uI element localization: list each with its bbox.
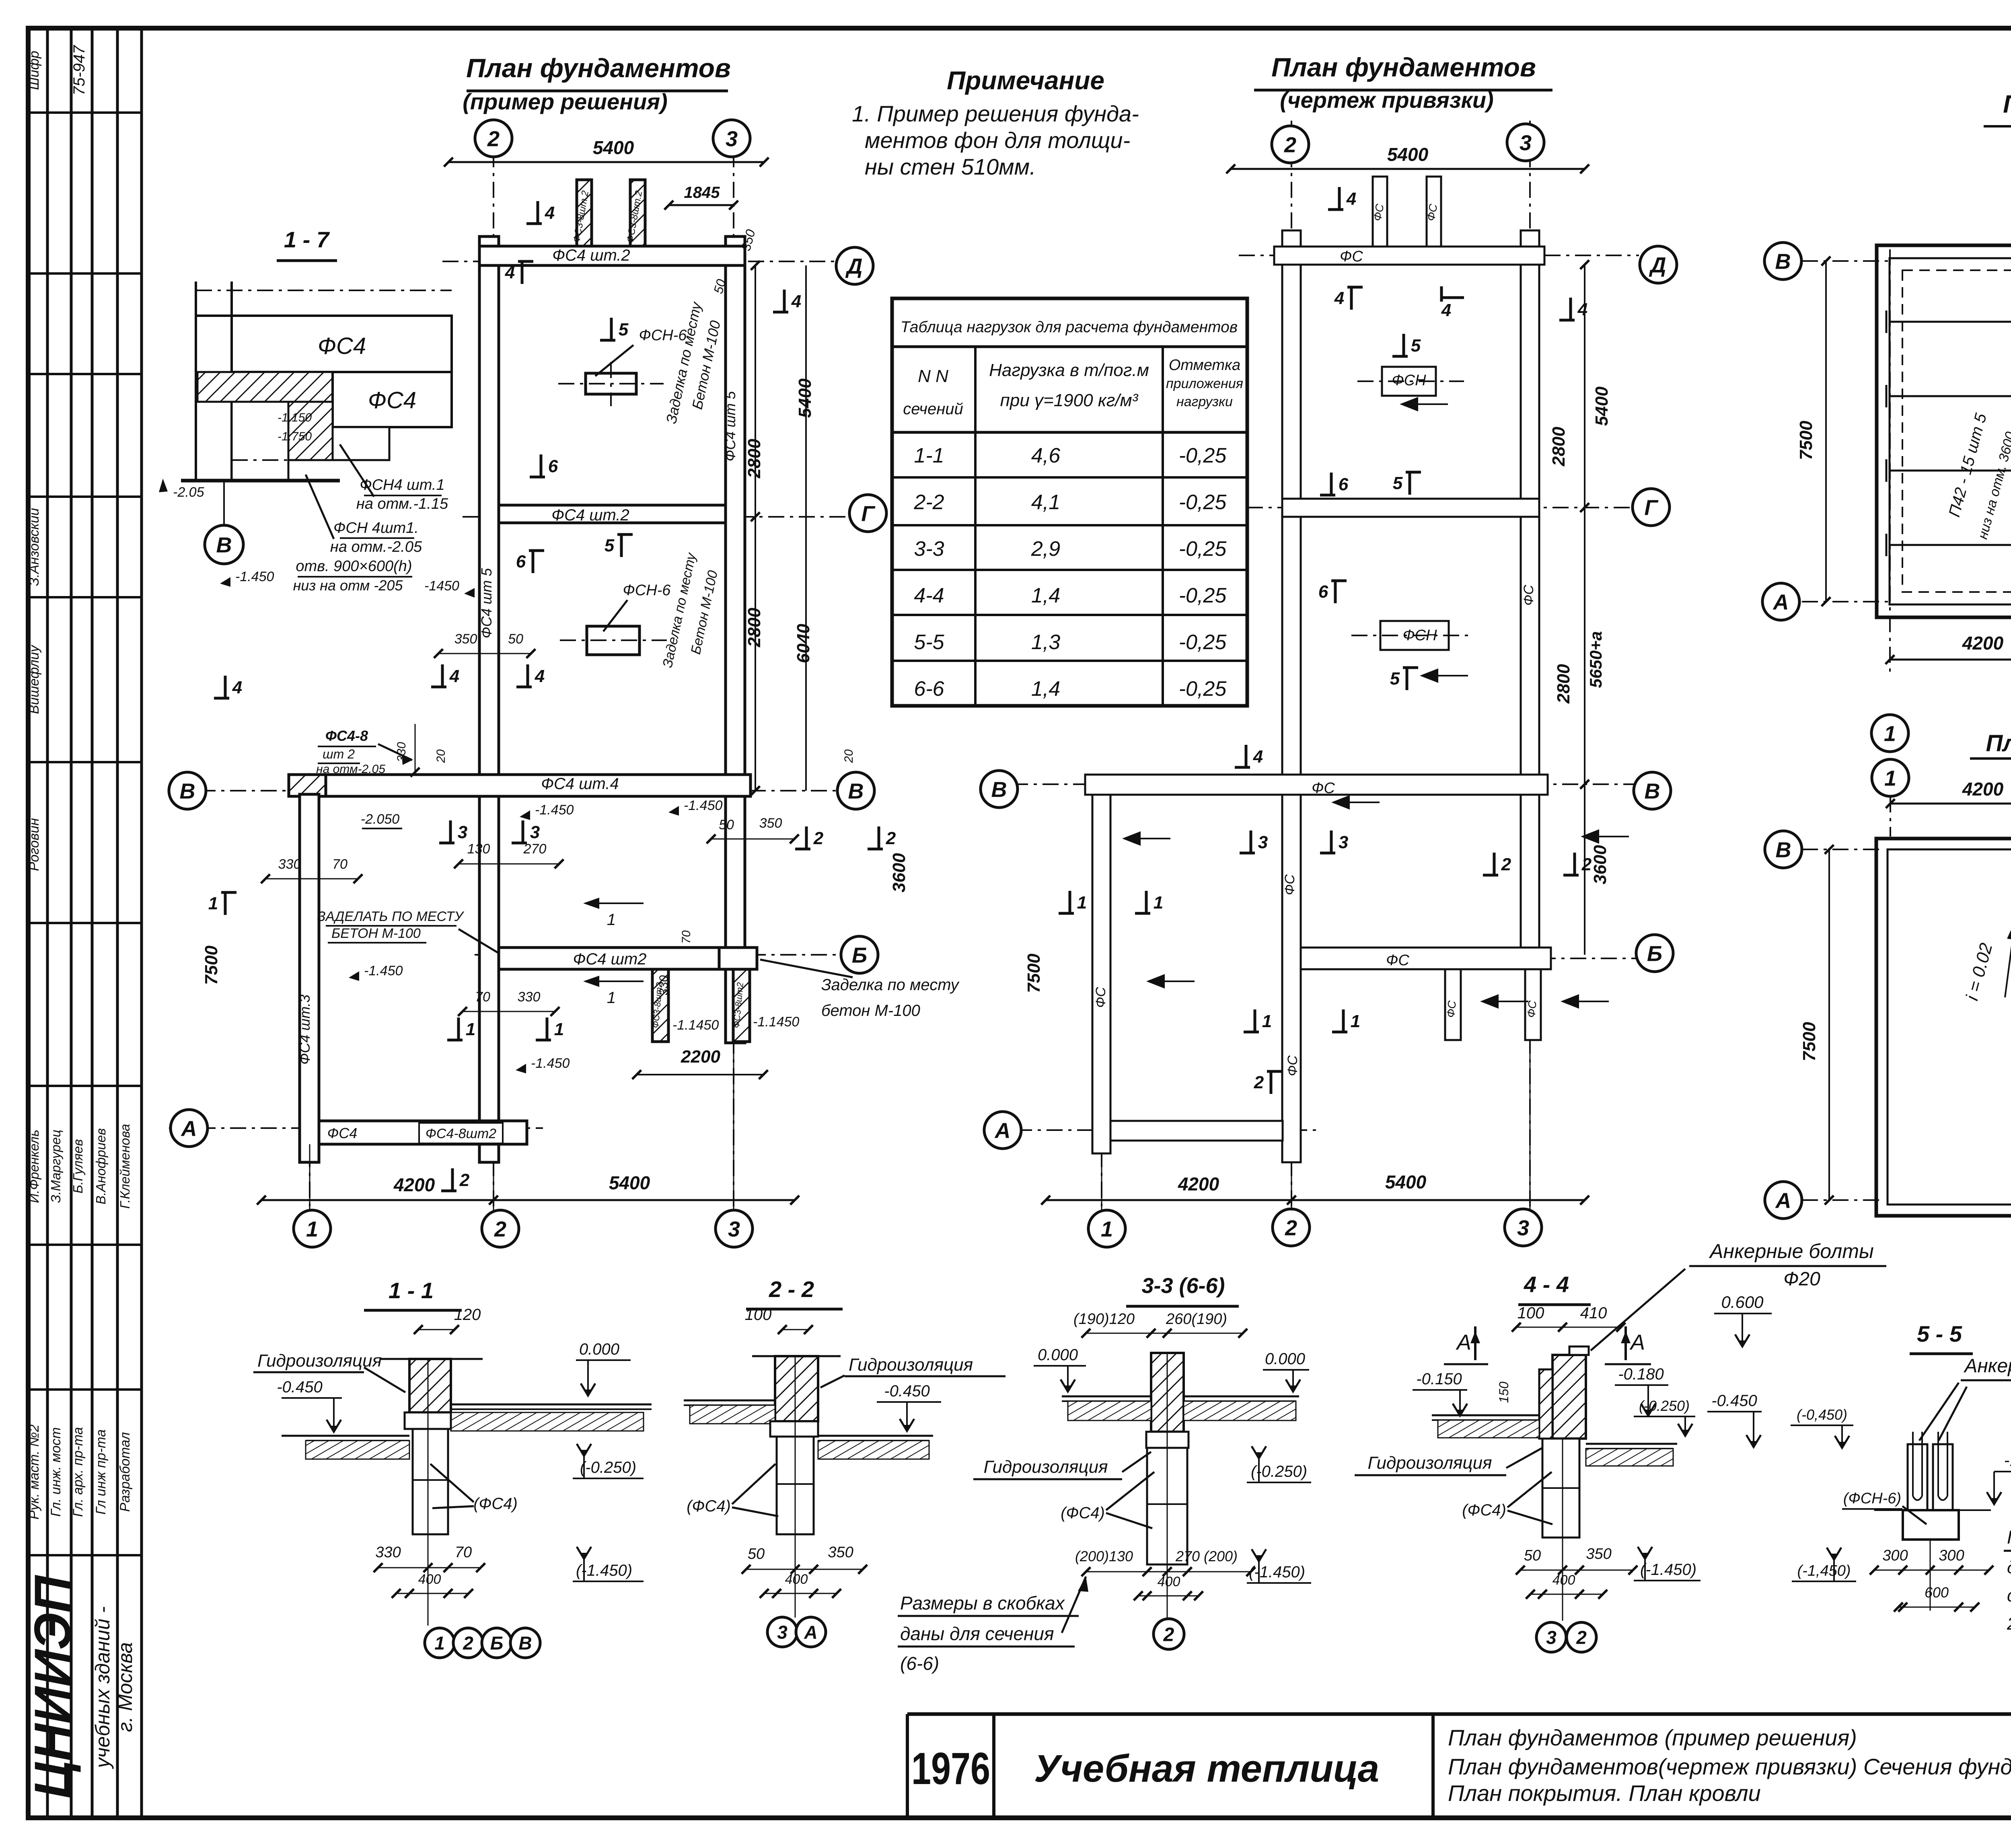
svg-text:-0.180: -0.180 <box>1618 1365 1663 1383</box>
svg-text:-1.450: -1.450 <box>684 798 722 813</box>
svg-text:4: 4 <box>535 666 545 686</box>
svg-text:2: 2 <box>459 1170 470 1190</box>
svg-text:ФСН-6: ФСН-6 <box>623 582 671 599</box>
svg-text:6: 6 <box>1339 475 1349 494</box>
svg-text:на отм-2.05: на отм-2.05 <box>316 763 385 776</box>
svg-text:0.600: 0.600 <box>1721 1293 1764 1311</box>
svg-text:(-1.450): (-1.450) <box>1640 1561 1696 1579</box>
title block <box>907 1712 2011 1716</box>
plan1 dims <box>448 161 764 163</box>
svg-text:Б: Б <box>852 943 867 967</box>
svg-text:Б: Б <box>490 1633 504 1654</box>
svg-text:2: 2 <box>1284 133 1296 157</box>
svg-text:1: 1 <box>1077 893 1087 913</box>
svg-text:2: 2 <box>1581 855 1592 874</box>
svg-text:Г: Г <box>861 502 876 526</box>
svg-text:на отм.-2.05: на отм.-2.05 <box>330 539 422 555</box>
svg-text:ФС: ФС <box>1525 1000 1539 1018</box>
svg-text:330: 330 <box>518 989 541 1005</box>
svg-text:6: 6 <box>548 456 558 476</box>
svg-text:А: А <box>181 1116 197 1141</box>
svg-text:А: А <box>994 1118 1011 1143</box>
svg-text:7500: 7500 <box>1796 421 1816 460</box>
svg-text:Гнездо в кладке: Гнездо в кладке <box>2007 1527 2011 1548</box>
svg-text:Нагрузка в т/пог.м: Нагрузка в т/пог.м <box>989 360 1149 380</box>
svg-text:350: 350 <box>759 816 782 831</box>
svg-text:-2.05: -2.05 <box>173 485 204 500</box>
svg-text:2-2: 2-2 <box>913 491 944 514</box>
svg-text:БЕТОН М-100: БЕТОН М-100 <box>331 926 421 941</box>
svg-text:4200: 4200 <box>1962 633 2004 654</box>
svg-text:ны стен 510мм.: ны стен 510мм. <box>865 154 1036 179</box>
svg-text:-1450: -1450 <box>424 578 459 594</box>
svg-text:Таблица нагрузок для расчета ф: Таблица нагрузок для расчета фундаментов <box>901 319 1238 336</box>
svg-text:(-0.250): (-0.250) <box>1639 1398 1690 1414</box>
svg-text:Б: Б <box>1647 941 1662 966</box>
svg-text:2200: 2200 <box>681 1047 720 1067</box>
svg-text:1,4: 1,4 <box>1031 584 1060 607</box>
pokrytie axes <box>1802 260 1890 262</box>
svg-text:ФС: ФС <box>1282 874 1297 895</box>
svg-text:Г.Клейменова: Г.Клейменова <box>117 1124 132 1209</box>
svg-text:70: 70 <box>680 930 693 944</box>
svg-text:6: 6 <box>1318 582 1328 602</box>
svg-text:-0,25: -0,25 <box>1179 584 1227 607</box>
svg-text:6040: 6040 <box>794 624 813 663</box>
svg-text:2800: 2800 <box>744 439 764 479</box>
svg-text:Анкерные болты: Анкерные болты <box>1963 1355 2011 1377</box>
svg-text:6-6: 6-6 <box>914 677 944 701</box>
svg-text:2 - 2: 2 - 2 <box>769 1277 814 1302</box>
plan1 walls <box>479 236 499 1162</box>
svg-text:3600: 3600 <box>889 853 909 892</box>
svg-text:1: 1 <box>1884 766 1896 790</box>
svg-text:7500: 7500 <box>202 946 221 985</box>
svg-text:2: 2 <box>1576 1627 1587 1648</box>
svg-text:4: 4 <box>1253 747 1263 767</box>
svg-text:Гл. арх. пр-та: Гл. арх. пр-та <box>70 1427 86 1517</box>
plan2 flags <box>1338 187 1341 210</box>
svg-text:5650+а: 5650+а <box>1586 631 1605 688</box>
svg-text:4200: 4200 <box>1178 1174 1219 1194</box>
svg-text:бетон М-100: бетон М-100 <box>821 1002 920 1020</box>
svg-text:ФС4 шт 5: ФС4 шт 5 <box>722 391 738 462</box>
svg-text:1: 1 <box>607 911 616 929</box>
svg-text:1-1: 1-1 <box>914 444 944 467</box>
svg-text:(-0,450): (-0,450) <box>1797 1406 1847 1423</box>
svg-text:ФС: ФС <box>1093 987 1108 1008</box>
svg-text:4: 4 <box>449 666 459 686</box>
svg-text:Гидроизоляция: Гидроизоляция <box>983 1457 1108 1477</box>
svg-text:В: В <box>1645 779 1660 803</box>
svg-text:ФСН 4шт1.: ФСН 4шт1. <box>333 520 419 537</box>
svg-text:ФС4 шт.4: ФС4 шт.4 <box>541 775 619 793</box>
svg-text:ФСН: ФСН <box>1402 627 1437 644</box>
svg-text:(ФС4): (ФС4) <box>1061 1504 1105 1522</box>
svg-text:6: 6 <box>516 552 526 571</box>
svg-text:(чертеж привязки): (чертеж привязки) <box>1280 87 1493 113</box>
svg-text:270 (200): 270 (200) <box>1175 1548 1238 1564</box>
svg-text:130: 130 <box>467 841 490 857</box>
svg-text:0.000: 0.000 <box>1038 1346 1078 1364</box>
svg-text:З.Маргурец: З.Маргурец <box>48 1130 63 1203</box>
plan1 section flags <box>537 201 539 224</box>
svg-text:ФСН: ФСН <box>1392 372 1426 389</box>
svg-text:-1.450: -1.450 <box>364 963 403 978</box>
svg-text:1: 1 <box>434 1633 445 1654</box>
svg-text:-1.450: -1.450 <box>235 569 274 584</box>
svg-text:(ФСН-6): (ФСН-6) <box>1843 1490 1901 1507</box>
svg-text:В: В <box>180 779 195 803</box>
svg-text:План покрытия. План кровли: План покрытия. План кровли <box>1448 1780 1761 1806</box>
svg-text:0.000: 0.000 <box>1265 1350 1305 1368</box>
svg-text:ФС4: ФС4 <box>318 333 366 359</box>
svg-text:ФС4: ФС4 <box>327 1125 358 1141</box>
svg-text:ФС4-8шт2: ФС4-8шт2 <box>426 1126 496 1141</box>
svg-text:ФС4: ФС4 <box>368 387 416 413</box>
svg-text:4,1: 4,1 <box>1031 491 1060 514</box>
svg-text:2,9: 2,9 <box>1031 537 1060 561</box>
svg-text:-1.050: -1.050 <box>2004 1451 2011 1470</box>
svg-text:4: 4 <box>791 292 801 311</box>
svg-text:ЗАДЕЛАТЬ ПО МЕСТУ: ЗАДЕЛАТЬ ПО МЕСТУ <box>317 909 465 924</box>
svg-text:-0.150: -0.150 <box>1416 1370 1462 1388</box>
svg-text:сечений: сечений <box>903 400 963 418</box>
svg-text:5: 5 <box>619 320 629 339</box>
svg-text:50: 50 <box>508 631 523 647</box>
svg-text:4200: 4200 <box>393 1174 435 1195</box>
svg-text:2: 2 <box>1501 855 1511 874</box>
plan2 axes <box>1291 121 1292 1211</box>
svg-text:Гидроизоляция: Гидроизоляция <box>257 1351 382 1371</box>
svg-text:120: 120 <box>454 1306 481 1324</box>
svg-text:330: 330 <box>278 857 301 872</box>
svg-text:50: 50 <box>1524 1547 1541 1564</box>
svg-text:-0,25: -0,25 <box>1179 677 1227 701</box>
svg-text:План фундаментов: План фундаментов <box>1271 52 1536 82</box>
svg-text:-1.150: -1.150 <box>278 411 312 424</box>
svg-text:260(190): 260(190) <box>1166 1311 1227 1328</box>
svg-text:5: 5 <box>1393 473 1403 493</box>
svg-text:нагрузки: нагрузки <box>1176 394 1233 409</box>
svg-text:ментов фон для толщи-: ментов фон для толщи- <box>865 127 1130 153</box>
svg-text:Г: Г <box>1644 495 1659 520</box>
svg-text:400: 400 <box>1552 1573 1575 1588</box>
svg-text:1: 1 <box>1351 1011 1360 1031</box>
svg-text:(6-6): (6-6) <box>900 1653 939 1674</box>
svg-text:учебных зданий -: учебных зданий - <box>91 1606 114 1769</box>
svg-text:3: 3 <box>1520 131 1532 155</box>
svg-text:20: 20 <box>842 749 855 763</box>
svg-text:А: А <box>1629 1330 1645 1355</box>
svg-text:План: План <box>1986 730 2011 756</box>
svg-text:-1.750: -1.750 <box>278 430 312 443</box>
svg-text:ФС: ФС <box>1444 1000 1458 1018</box>
roof slab plan <box>1877 245 2011 617</box>
svg-text:4200: 4200 <box>1962 779 2004 800</box>
svg-text:350: 350 <box>828 1544 853 1561</box>
svg-text:7500: 7500 <box>1799 1022 1819 1061</box>
svg-text:-0.450: -0.450 <box>1711 1392 1757 1410</box>
svg-text:(ФС4): (ФС4) <box>1462 1501 1506 1519</box>
svg-text:260×270×150 (h): 260×270×150 (h) <box>2007 1614 2011 1634</box>
svg-text:1: 1 <box>1262 1011 1272 1031</box>
svg-text:Ф20: Ф20 <box>1783 1268 1820 1290</box>
svg-text:-0.450: -0.450 <box>277 1378 322 1396</box>
svg-text:-1.1450: -1.1450 <box>753 1014 799 1030</box>
svg-text:(ФС4): (ФС4) <box>473 1495 518 1513</box>
svg-text:-0,25: -0,25 <box>1179 631 1227 654</box>
svg-text:ФС: ФС <box>1340 248 1363 265</box>
svg-text:400: 400 <box>418 1572 441 1587</box>
svg-text:5400: 5400 <box>593 137 634 158</box>
svg-text:600: 600 <box>1925 1584 1949 1601</box>
svg-text:350: 350 <box>1586 1546 1611 1562</box>
svg-text:100: 100 <box>745 1306 772 1324</box>
svg-text:И.Френкель: И.Френкель <box>27 1130 41 1203</box>
svg-text:3-3 (6-6): 3-3 (6-6) <box>1141 1274 1225 1298</box>
svg-text:100: 100 <box>1518 1304 1544 1322</box>
svg-text:5400: 5400 <box>1385 1172 1427 1192</box>
svg-text:(ФС4): (ФС4) <box>687 1497 731 1515</box>
svg-text:4: 4 <box>1441 300 1451 320</box>
svg-text:отв. 900×600(h): отв. 900×600(h) <box>296 558 412 575</box>
svg-text:2: 2 <box>487 127 500 151</box>
svg-text:(-0.250): (-0.250) <box>580 1459 636 1476</box>
plan2 walls <box>1282 230 1301 1162</box>
left stamp strip <box>46 28 49 1818</box>
svg-text:В: В <box>1775 249 1791 273</box>
svg-text:-1.1450: -1.1450 <box>672 1018 719 1033</box>
svg-text:4: 4 <box>1346 189 1356 209</box>
svg-text:Б.Гуляев: Б.Гуляев <box>70 1139 85 1193</box>
svg-text:50: 50 <box>719 817 734 833</box>
svg-text:330: 330 <box>395 742 408 762</box>
svg-text:1,3: 1,3 <box>1031 631 1060 654</box>
svg-text:3: 3 <box>1546 1627 1557 1648</box>
svg-text:2: 2 <box>1254 1073 1264 1092</box>
svg-text:ФС4 шт.2: ФС4 шт.2 <box>552 247 630 264</box>
pokrytie dims <box>1825 261 1827 602</box>
svg-text:3: 3 <box>777 1622 788 1643</box>
svg-text:5: 5 <box>605 536 615 555</box>
svg-text:Роговин: Роговин <box>27 818 42 871</box>
svg-text:приложения: приложения <box>1166 376 1243 391</box>
svg-text:75-947: 75-947 <box>70 45 88 95</box>
svg-text:350: 350 <box>454 631 477 647</box>
svg-text:2800: 2800 <box>744 608 764 648</box>
svg-text:при γ=1900 кг/м³: при γ=1900 кг/м³ <box>1000 391 1139 410</box>
svg-text:5400: 5400 <box>609 1172 650 1193</box>
svg-text:70: 70 <box>455 1544 472 1561</box>
plan2 dims <box>1231 168 1585 170</box>
svg-text:-0,25: -0,25 <box>1179 491 1227 514</box>
svg-text:Д: Д <box>1649 253 1666 277</box>
svg-text:А: А <box>1456 1330 1471 1355</box>
svg-text:0.000: 0.000 <box>579 1340 619 1358</box>
plan1 axis circles <box>475 120 512 157</box>
svg-text:ФС: ФС <box>1386 952 1409 969</box>
svg-text:4: 4 <box>1334 288 1344 308</box>
svg-text:3: 3 <box>1517 1216 1529 1240</box>
svg-text:1: 1 <box>208 894 218 913</box>
svg-text:1845: 1845 <box>684 184 720 201</box>
svg-text:2: 2 <box>463 1633 473 1654</box>
svg-text:2: 2 <box>494 1217 506 1241</box>
svg-text:5 - 5: 5 - 5 <box>1917 1321 1962 1346</box>
roof plan <box>1876 839 2011 1216</box>
svg-text:ФС4 шт2: ФС4 шт2 <box>573 950 647 968</box>
svg-text:ФС: ФС <box>1285 1055 1300 1076</box>
svg-text:3: 3 <box>458 822 467 842</box>
svg-text:1: 1 <box>607 989 616 1007</box>
svg-text:(200)130: (200)130 <box>1075 1548 1133 1564</box>
svg-text:В: В <box>216 533 232 557</box>
svg-text:-0,25: -0,25 <box>1179 444 1227 467</box>
svg-text:300: 300 <box>1882 1547 1908 1564</box>
svg-text:Рук. маст. №2: Рук. маст. №2 <box>27 1425 42 1519</box>
svg-text:на отм.-1.15: на отм.-1.15 <box>356 495 448 512</box>
svg-text:(-1.450): (-1.450) <box>1249 1563 1305 1581</box>
svg-text:4-4: 4-4 <box>914 584 944 607</box>
svg-text:70: 70 <box>475 989 490 1005</box>
svg-text:7500: 7500 <box>1024 954 1044 993</box>
svg-text:5400: 5400 <box>795 378 815 418</box>
svg-text:1 - 1: 1 - 1 <box>389 1278 434 1303</box>
svg-text:ФС: ФС <box>1312 780 1335 797</box>
svg-text:ФС: ФС <box>1521 585 1536 606</box>
svg-text:стойки каркаса: стойки каркаса <box>2007 1586 2011 1605</box>
svg-text:3: 3 <box>1339 833 1348 852</box>
svg-text:В: В <box>991 777 1007 802</box>
svg-text:ФС4 шт.3: ФС4 шт.3 <box>296 995 313 1065</box>
svg-text:Размеры в скобках: Размеры в скобках <box>900 1593 1065 1614</box>
svg-text:1: 1 <box>1884 722 1896 746</box>
svg-text:3600: 3600 <box>1590 845 1610 884</box>
svg-text:3-3: 3-3 <box>914 537 944 561</box>
svg-text:-0.450: -0.450 <box>884 1382 929 1400</box>
svg-text:ФС4-8: ФС4-8 <box>325 728 368 744</box>
svg-text:Д: Д <box>845 254 863 278</box>
svg-text:-1.450: -1.450 <box>535 802 574 818</box>
svg-text:Гл. инж. мост: Гл. инж. мост <box>48 1427 64 1517</box>
svg-text:400: 400 <box>785 1572 808 1587</box>
load table <box>892 298 1247 706</box>
svg-text:2: 2 <box>1163 1624 1174 1645</box>
svg-text:4: 4 <box>1577 300 1587 319</box>
svg-text:В: В <box>1776 838 1791 862</box>
svg-text:План покрытия: План покрытия <box>2003 90 2011 118</box>
svg-text:410: 410 <box>1580 1304 1607 1322</box>
svg-text:20: 20 <box>434 749 448 763</box>
svg-text:Заделка по месту: Заделка по месту <box>821 976 960 994</box>
svg-text:(190)120: (190)120 <box>1073 1311 1135 1328</box>
svg-text:-2.050: -2.050 <box>361 812 399 827</box>
svg-text:ФС4 шт.2: ФС4 шт.2 <box>551 506 629 524</box>
plan2 circles <box>1272 126 1309 163</box>
svg-text:Гидроизоляция: Гидроизоляция <box>849 1355 973 1375</box>
svg-text:А: А <box>1772 590 1789 614</box>
svg-text:330: 330 <box>657 975 670 995</box>
svg-text:Разработал: Разработал <box>117 1432 133 1512</box>
svg-text:2800: 2800 <box>1549 427 1569 467</box>
svg-text:70: 70 <box>332 857 348 872</box>
svg-text:для установки: для установки <box>2007 1558 2011 1577</box>
svg-text:шт 2: шт 2 <box>323 747 355 761</box>
svg-text:Анкерные болты: Анкерные болты <box>1709 1240 1874 1262</box>
svg-text:3: 3 <box>530 822 540 842</box>
svg-text:низ на отм -205: низ на отм -205 <box>293 577 403 594</box>
svg-text:З.Анзовский: З.Анзовский <box>27 508 42 586</box>
svg-text:Отметка: Отметка <box>1169 357 1240 374</box>
svg-text:1: 1 <box>1154 893 1163 913</box>
svg-text:4: 4 <box>232 678 242 697</box>
svg-text:300: 300 <box>1939 1547 1964 1564</box>
svg-text:1976: 1976 <box>911 1743 990 1794</box>
svg-text:400: 400 <box>1158 1574 1180 1589</box>
svg-text:План фундаментов: План фундаментов <box>466 53 731 83</box>
svg-text:5400: 5400 <box>1592 386 1612 426</box>
svg-text:А: А <box>1775 1188 1791 1213</box>
svg-text:План фундаментов(чертеж привяз: План фундаментов(чертеж привязки) Сечени… <box>1448 1754 2011 1779</box>
svg-text:1: 1 <box>1101 1217 1113 1241</box>
svg-text:Гл инж пр-та: Гл инж пр-та <box>93 1429 109 1515</box>
svg-text:2: 2 <box>813 828 824 848</box>
svg-text:Шифр: Шифр <box>27 51 42 90</box>
svg-text:План фундаментов (пример решен: План фундаментов (пример решения) <box>1448 1725 1857 1750</box>
svg-text:4: 4 <box>545 203 555 223</box>
svg-text:В.Анофриев: В.Анофриев <box>93 1128 108 1205</box>
svg-text:3: 3 <box>726 127 738 151</box>
svg-text:(-1,450): (-1,450) <box>1797 1562 1851 1579</box>
svg-text:1: 1 <box>554 1020 564 1039</box>
svg-text:ФСН4 шт.1: ФСН4 шт.1 <box>360 477 444 493</box>
svg-text:330: 330 <box>375 1544 401 1561</box>
svg-text:г. Москва: г. Москва <box>114 1642 136 1732</box>
svg-text:1. Пример решения фунда-: 1. Пример решения фунда- <box>852 101 1139 126</box>
svg-text:1,4: 1,4 <box>1031 677 1060 701</box>
svg-text:1: 1 <box>306 1217 318 1241</box>
svg-text:даны для сечения: даны для сечения <box>900 1623 1054 1644</box>
svg-text:В: В <box>518 1633 532 1654</box>
svg-text:1: 1 <box>466 1020 475 1039</box>
svg-text:5400: 5400 <box>1387 144 1429 165</box>
svg-text:4,6: 4,6 <box>1031 444 1060 467</box>
svg-text:2800: 2800 <box>1554 664 1573 704</box>
svg-text:150: 150 <box>1497 1381 1511 1403</box>
svg-text:4: 4 <box>505 263 515 282</box>
svg-text:-0,25: -0,25 <box>1179 537 1227 561</box>
svg-text:5: 5 <box>1411 336 1421 356</box>
svg-text:2: 2 <box>1285 1216 1297 1240</box>
svg-text:-1.450: -1.450 <box>531 1056 570 1071</box>
svg-text:Учебная теплица: Учебная теплица <box>1034 1747 1379 1790</box>
svg-text:3: 3 <box>728 1217 740 1241</box>
svg-text:3: 3 <box>1258 833 1268 852</box>
svg-text:1 - 7: 1 - 7 <box>284 227 330 252</box>
svg-text:(пример решения): (пример решения) <box>463 89 668 114</box>
krovlya axes/circles <box>1872 759 1909 796</box>
svg-text:В: В <box>848 779 864 803</box>
svg-text:Вишефлиу: Вишефлиу <box>27 644 42 714</box>
svg-text:4 - 4: 4 - 4 <box>1524 1272 1569 1297</box>
svg-text:А: А <box>804 1622 817 1643</box>
svg-text:Примечание: Примечание <box>947 66 1104 95</box>
svg-text:50: 50 <box>748 1546 765 1562</box>
svg-text:N N: N N <box>918 366 948 386</box>
svg-text:5: 5 <box>1390 669 1400 689</box>
svg-text:ЦНИИЭП: ЦНИИЭП <box>24 1575 82 1799</box>
